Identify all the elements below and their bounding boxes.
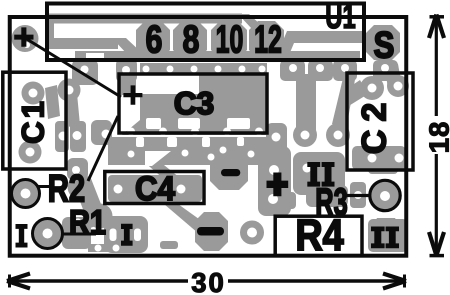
node II label (upper right) [307,162,334,187]
svg-text:30: 30 [191,267,226,295]
pad left of C3 [91,120,112,145]
svg-text:6: 6 [146,19,163,62]
pad ring3 [370,180,400,210]
pad below (R2 target) [67,158,88,180]
label R3 [315,181,347,224]
R3 leader line [346,194,369,197]
pin label 6 [146,19,163,62]
trace C3 interior band [122,74,266,136]
label R2 [48,168,85,211]
wire: diagonal into C4 [128,148,180,180]
wire: left vertical connector inside U1 [47,14,54,49]
node I label (left) [15,224,27,247]
pad: octagon under pin label 10 [211,21,247,59]
wire: thin top trace inside U1 [49,14,242,24]
label C1 (rotated) [16,98,51,144]
capacitor C2 outline [347,73,413,170]
R1 leader line [63,233,96,236]
pads straddling C1 right edge [55,121,69,152]
plus mark 3 [267,173,289,197]
svg-text:R4: R4 [295,211,344,260]
pin label 8 [183,19,200,62]
dimension line 30 (horizontal) [7,274,406,289]
svg-text:U1: U1 [325,0,355,36]
pad with minus2 [195,212,228,251]
pad: minus1 octagon [210,154,248,190]
label C4 [135,170,175,208]
wire: diagonal below C4 [164,204,224,245]
pad: S octagon [366,25,400,60]
copper pour below C3 [108,137,267,165]
white holes in pads [24,42,404,252]
wire: diagonal trace to pad 338 [332,74,356,130]
pad left of ring3 [350,182,366,208]
pad behind R2 label [68,175,93,200]
pads inside C1 [22,82,45,105]
node S label [374,25,395,66]
wire: mid trace inside U1 [47,38,118,49]
label U1 [325,0,355,36]
svg-text:18: 18 [424,121,450,154]
dimension label 18 (rotated) [424,121,450,154]
plus mark inside C3 [123,85,142,104]
wire: vertical trace to pad 305 [296,74,316,130]
R2 leader diagonal to C3 [88,116,118,181]
pad: octagon under pin label 8 [173,21,207,59]
R2 leader line to ring1 [32,185,50,188]
blob right of ring2 [62,217,91,249]
pin label 10 [216,19,244,62]
svg-text:R1: R1 [69,204,106,242]
pad ring1 [12,180,40,208]
pad row between U1 and C3 [72,60,98,85]
pin label 12 [254,19,282,62]
svg-text:C1: C1 [16,98,51,144]
polarity line from pad to C3 plus [25,38,121,97]
pad above ring3 [368,162,398,174]
blob under R3 [306,185,348,207]
resistor R4 outline [275,216,362,256]
pad below ring3 / blob under II node 2 [368,219,408,252]
svg-text:8: 8 [183,19,200,62]
capacitor C4 outline [105,172,204,204]
node I label (center) [121,224,133,246]
svg-text:C3: C3 [174,85,214,121]
svg-text:C2: C2 [356,95,394,154]
svg-text:C4: C4 [135,170,175,208]
svg-text:12: 12 [254,19,282,62]
op-amp U1 outline [47,4,364,61]
wire: second trace inside C1 [45,85,60,119]
C4 interior band [108,175,202,202]
blob under I node 2 [104,216,148,253]
pad behind R1 label [88,204,113,229]
blob under II node 1 [293,152,345,195]
pad: octagon under pin label 6 [136,21,170,59]
label R1 [69,204,106,242]
svg-text:S: S [374,25,395,66]
right middle pads [293,123,317,147]
svg-text:10: 10 [216,19,244,62]
pads inside C2 [360,76,384,100]
node II label (lower right) [371,227,399,249]
wire: right trace inside U1 [287,31,362,43]
capacitor C1 outline [3,72,66,169]
pad left of R4 [240,221,264,245]
pad right of C3 [266,123,287,158]
trace: +3 vertical bar [258,146,291,216]
minus mark 1 [221,169,240,176]
dimension line 18 (vertical) [429,15,444,256]
capacitor C3 outline [119,74,267,133]
pad: top-left plus pad [12,25,39,52]
pad: octagon under pin label 12 [249,21,284,59]
pad ring2 [33,219,63,249]
board outline [10,17,407,256]
plus mark on top-left pad [14,27,33,46]
label C3 [174,85,214,121]
wire: trace down from pad in C1 [63,83,80,127]
label R4 [295,211,344,260]
wire: bottom bar inside U1 [75,51,360,62]
dimension label 30 [191,267,226,295]
minus mark 2 [197,227,224,236]
label C2 (rotated) [356,95,394,154]
